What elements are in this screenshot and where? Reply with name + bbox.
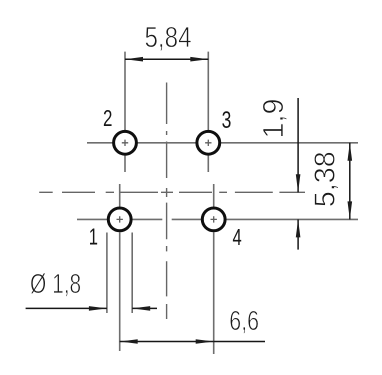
dimension Ø1,8 leader line left <box>26 307 107 309</box>
extension line pin 3 (vertical) <box>207 52 209 172</box>
dimension 6,6 left arrow <box>120 339 138 344</box>
extension line pin 1 left edge <box>106 233 108 314</box>
dimension Ø1,8 tail right <box>132 307 157 309</box>
dimension 6,6 right arrow <box>196 339 214 344</box>
centerline horizontal <box>39 191 305 193</box>
pin 1 cross <box>117 216 123 222</box>
bottom pin row line <box>77 218 358 220</box>
dimension 6,6 tail <box>214 341 265 343</box>
pin 4 cross <box>211 216 217 222</box>
pin 4 <box>202 208 225 231</box>
dimension 5,38 up arrow <box>348 143 353 161</box>
dimension 5,38 line <box>349 143 351 220</box>
pin 2 <box>114 131 137 154</box>
dimension Ø1,8 right arrow (pointing right) <box>89 306 107 311</box>
centerline vertical <box>166 83 168 320</box>
svg-text:5,38: 5,38 <box>310 151 342 207</box>
dimension 6,6 line <box>120 341 214 343</box>
svg-text:2: 2 <box>103 105 112 131</box>
pin 2 cross <box>122 140 128 146</box>
top pin row line <box>87 142 358 144</box>
svg-text:5,84: 5,84 <box>145 22 192 54</box>
pin 3 <box>197 131 220 154</box>
dimension Ø1,8 left arrow (pointing left) <box>132 306 150 311</box>
extension line pin 2 (vertical) <box>124 52 126 172</box>
pin 3 cross <box>205 140 211 146</box>
svg-text:6,6: 6,6 <box>229 305 259 336</box>
dimension 1,9 down arrow <box>296 174 301 192</box>
svg-text:Ø 1,8: Ø 1,8 <box>30 268 81 299</box>
pin 1 <box>108 208 131 231</box>
dimension 1,9 line upper <box>297 98 299 192</box>
dimension 5,38 down arrow <box>348 201 353 219</box>
svg-text:1: 1 <box>89 225 98 250</box>
extension line pin 1 right edge <box>131 233 133 314</box>
svg-text:4: 4 <box>232 226 241 251</box>
dimension 1,9 line lower <box>297 219 299 249</box>
dimension 5,84 left arrow <box>125 57 143 62</box>
dimension 5,84 right arrow <box>190 57 208 62</box>
extension line pin 4 center (vertical) <box>213 184 215 354</box>
dimension 5,84 line <box>125 58 208 60</box>
dimension 1,9 up arrow <box>296 219 301 237</box>
svg-text:3: 3 <box>222 107 232 133</box>
extension line pin 1 center (vertical) <box>119 184 121 351</box>
svg-text:1,9: 1,9 <box>258 99 290 139</box>
